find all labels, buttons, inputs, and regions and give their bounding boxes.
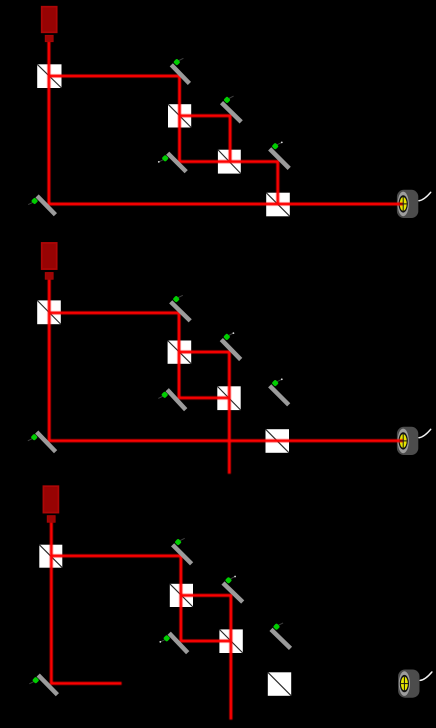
laser L3 xyxy=(43,486,58,522)
laser L1 xyxy=(42,7,57,42)
beam splitter BS1c xyxy=(39,545,62,568)
mirror M2a xyxy=(222,96,242,122)
detector D3 body xyxy=(398,670,419,698)
beam splitter BS4b xyxy=(266,429,290,453)
wire W1a (laser beam) xyxy=(49,41,403,204)
mirror M4b xyxy=(270,378,289,404)
detector D1 lens cross and cable xyxy=(400,192,431,211)
detector D1 body xyxy=(397,190,418,218)
wire W3a (laser beam) xyxy=(180,116,231,162)
beam splitter BS3b xyxy=(217,386,240,410)
beam splitter BS3c xyxy=(219,629,242,653)
wire W1c (laser beam) xyxy=(51,522,121,683)
mirror M0b xyxy=(28,432,56,452)
mirror M3b xyxy=(158,390,185,410)
beam splitter BS1b xyxy=(37,300,61,324)
wire W4b (laser beam) xyxy=(276,441,279,474)
mirror M0c xyxy=(29,675,57,695)
wire W2b (laser beam) xyxy=(49,313,229,398)
mirror M0a xyxy=(28,196,55,215)
beam splitter BS2b xyxy=(168,341,192,364)
mirror M3c xyxy=(159,633,187,653)
wire W2a (laser beam) xyxy=(49,76,278,204)
mirror M4a xyxy=(270,142,290,169)
detector D2 body xyxy=(397,427,418,455)
detector D2 lens cross and cable xyxy=(400,429,431,448)
mirror M2c xyxy=(223,576,243,602)
beam splitter BS4a xyxy=(266,193,290,217)
mirror M3a xyxy=(158,153,186,172)
wire W1b (laser beam) xyxy=(49,279,403,441)
beam splitter BS1a xyxy=(37,64,61,88)
wire W2c (laser beam) xyxy=(51,556,231,641)
beam splitter BS4c xyxy=(268,672,291,696)
mirror M1b xyxy=(171,295,191,321)
beam splitter BS2a xyxy=(168,104,191,127)
mirror M1a xyxy=(171,58,189,83)
laser L2 xyxy=(42,243,57,279)
wire W3b (laser beam) xyxy=(179,352,229,474)
wire W3c (laser beam) xyxy=(181,595,231,719)
mirror M2b xyxy=(221,332,240,359)
mirror M1c xyxy=(173,538,192,564)
beam splitter BS3a xyxy=(218,150,241,174)
mirror M4c xyxy=(271,623,291,649)
beam splitter BS2c xyxy=(170,584,193,607)
detector D3 lens cross and cable xyxy=(401,672,432,691)
